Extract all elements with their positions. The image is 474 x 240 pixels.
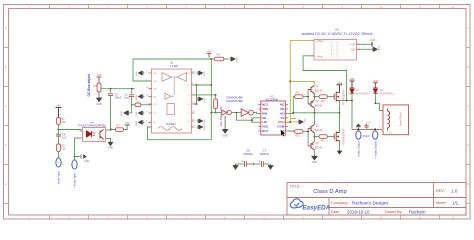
svg-text:Racham: Racham (409, 209, 426, 214)
svg-text:GND: GND (204, 125, 206, 130)
svg-text:CD4009UBE: CD4009UBE (226, 99, 243, 103)
wire opto pin2 to audio input + (75, 138, 81, 157)
svg-text:GND: GND (222, 134, 228, 137)
svg-text:GND: GND (312, 161, 318, 164)
wire D4 to L1 (375, 93, 383, 110)
svg-text:1500uF: 1500uF (260, 152, 270, 156)
svg-text:GND: GND (237, 57, 239, 62)
svg-text:+ Vout: + Vout (316, 39, 324, 43)
wire yellow branch upper cell (290, 81, 314, 84)
svg-text:- VO: - VO (350, 47, 355, 51)
svg-text:D: D (467, 144, 469, 147)
svg-text:D: D (5, 144, 7, 147)
transistor Q6 BD140 (308, 142, 323, 150)
svg-text:BD139: BD139 (315, 90, 323, 93)
node junction input bias (58, 129, 60, 131)
svg-text:TL494: TL494 (170, 64, 178, 68)
svg-text:+12V: +12V (370, 39, 376, 42)
connector pin audio in right (72, 160, 77, 188)
diode D4 MUR460RLG (373, 88, 394, 96)
ground at module output (360, 46, 380, 52)
svg-text:VS: VS (280, 116, 284, 120)
wire module +VIN (yellow rail) (290, 40, 314, 118)
svg-text:GND: GND (204, 97, 206, 102)
gnd flag pin5 (left) (136, 111, 145, 117)
ground bias (96, 97, 102, 107)
trimmer R5 vertical (214, 99, 218, 113)
svg-text:NC2: NC2 (262, 103, 268, 107)
gnd flag right of R4 (229, 57, 239, 63)
svg-text:VDD: VDD (262, 107, 269, 111)
svg-text:10uF: 10uF (124, 97, 130, 100)
U5 pin names (316, 39, 356, 58)
U1 body (152, 69, 192, 133)
svg-text:NC3: NC3 (262, 129, 268, 133)
svg-text:+12V: +12V (304, 118, 306, 124)
svg-text:GND: GND (96, 103, 102, 106)
svg-text:C: C (467, 105, 469, 108)
drain power flag +24V (337, 83, 343, 93)
ground C7 right (268, 164, 273, 169)
svg-text:HIN: HIN (262, 111, 267, 115)
emitter rail cell2 (313, 133, 315, 142)
svg-text:- Audio Input: - Audio Input (57, 171, 61, 186)
opto LED (87, 131, 96, 137)
gnd flag pin14 (right) (197, 71, 207, 77)
base rail cell2 (307, 128, 309, 146)
svg-text:Class D Amp: Class D Amp (313, 189, 347, 195)
svg-text:2IN+: 2IN+ (153, 89, 158, 91)
svg-text:1.0: 1.0 (451, 188, 458, 193)
wire Q6 collector to gnd (313, 150, 315, 155)
svg-text:1/1: 1/1 (452, 200, 459, 205)
svg-text:PC817X4NSZ0F(B): PC817X4NSZ0F(B) (78, 124, 105, 128)
wire opto pin1 (79, 130, 81, 132)
svg-text:+9V: +9V (56, 105, 61, 108)
+12V flag at module output (360, 39, 376, 47)
U1 flip flop box (167, 104, 175, 115)
wire pin9 to trimmer (195, 95, 216, 99)
power flag above D2 (349, 79, 355, 88)
svg-text:+ VO: + VO (349, 42, 355, 46)
gnd flag pin13 (right) (197, 125, 207, 131)
wire audio-in right to gnd (75, 157, 80, 160)
svg-text:+5V: +5V (207, 50, 212, 54)
inverter U2A (211, 110, 231, 115)
wire D2 anode to source rail (340, 93, 353, 129)
svg-text:2019-10-10: 2019-10-10 (347, 209, 370, 214)
U1 comparator (165, 93, 174, 100)
ground C1C2 (left-pointing flag) (121, 111, 132, 117)
svg-text:10k 4W 1A VR: 10k 4W 1A VR (219, 106, 223, 126)
svg-text:OC: OC (187, 85, 191, 87)
U1 right pin stubs (192, 73, 195, 127)
resistor R1 (57, 118, 67, 128)
wire bias tap to C5/C1 (101, 88, 135, 90)
emitter rail cell1 (313, 94, 315, 100)
connector pin audio output - (356, 131, 361, 158)
resistor R11 gate (314, 135, 334, 143)
ground below inverter (222, 116, 228, 138)
diode D2 MUR460RLG (350, 88, 371, 96)
svg-text:100uF: 100uF (115, 97, 123, 100)
VCC net flag right of U3 (288, 118, 307, 124)
svg-text:GND: GND (136, 71, 138, 76)
U1 error amp 2 (177, 73, 187, 82)
U1 inner pin names (153, 73, 191, 124)
node C6C7 (253, 163, 255, 165)
svg-text:BD139: BD139 (315, 129, 323, 132)
gnd flag pin6 (left) (136, 120, 145, 126)
resistor R9 gate (314, 95, 334, 103)
gnd flag pin12 (right) (197, 119, 207, 125)
svg-text:470nF: 470nF (363, 135, 371, 138)
resistor R8 (295, 92, 309, 99)
svg-text:DTC: DTC (153, 104, 158, 106)
wire Q2 collector to mid rail (313, 108, 315, 113)
border tick marks top/bottom (50, 5, 440, 220)
mid rail (phase node) (293, 112, 339, 114)
wire junction to SD LIN (236, 113, 258, 123)
svg-text:+ Audio Output: + Audio Output (373, 141, 377, 159)
svg-text:+ Audio Input: + Audio Input (73, 173, 77, 188)
svg-text:VCC: VCC (186, 73, 191, 75)
svg-text:Drawn By:: Drawn By: (385, 210, 403, 214)
U3 left pin names (262, 103, 269, 133)
svg-text:GND: GND (84, 160, 90, 163)
wire rail down to bottom loop (210, 59, 212, 140)
transistor Q1 BD139 (308, 85, 323, 94)
svg-text:Company:: Company: (331, 201, 348, 205)
capacitor C1 (124, 89, 134, 101)
ground at audio input (79, 154, 86, 158)
power flag bias (97, 73, 102, 82)
U3 body (261, 101, 286, 135)
svg-text:GND: GND (204, 71, 206, 76)
title block frame (287, 183, 466, 216)
gnd flag pin1 (left) (136, 71, 145, 77)
node yellow rail (289, 80, 291, 82)
svg-text:1uF: 1uF (62, 137, 67, 140)
wire Q5 collector to mid rail (313, 113, 315, 125)
svg-text:GND: GND (136, 95, 138, 100)
U1 left pin stubs (149, 73, 152, 127)
svg-text:+5V: +5V (97, 73, 102, 77)
U5 pin stubs (311, 40, 360, 55)
svg-text:1IN+: 1IN+ (153, 73, 158, 75)
svg-text:MUR460RLG: MUR460RLG (380, 92, 395, 95)
power flag VCC input chain (56, 105, 62, 118)
svg-text:+24V: +24V (337, 83, 343, 85)
wire module -VIN loop (303, 56, 347, 101)
svg-text:Isolated DC-DC 9-18VDC To 12VD: Isolated DC-DC 9-18VDC To 12VDC 250mA (302, 32, 374, 36)
node below C1 (131, 104, 133, 106)
svg-text:VCC: VCC (278, 120, 285, 124)
svg-text:GND: GND (378, 46, 380, 51)
svg-text:MUR460RLG: MUR460RLG (355, 92, 370, 95)
gnd flag pin15 (left) (136, 94, 145, 100)
wire bottom loop (147, 127, 211, 140)
connector pin audio output + (373, 131, 378, 159)
svg-text:TITLE:: TITLE: (290, 185, 301, 189)
wire pin8 to pin10 (195, 85, 197, 104)
svg-text:4R7: 4R7 (321, 140, 326, 143)
resistor R4 (211, 54, 228, 61)
svg-text:TL494N: TL494N (165, 122, 175, 126)
power flag +5V top rail (207, 50, 212, 58)
svg-text:VSS: VSS (262, 125, 268, 129)
svg-text:C: C (5, 105, 7, 108)
svg-text:Date:: Date: (331, 210, 340, 214)
wire top loop VCC (133, 59, 211, 81)
wire HO to R8 (288, 97, 295, 114)
node pin8 (196, 84, 198, 86)
mouse cursor arrow (281, 130, 286, 137)
U1 oscillator (158, 127, 182, 131)
power flag at R7 (125, 123, 130, 125)
svg-text:+24V: +24V (372, 79, 378, 83)
svg-text:Racham's Designs: Racham's Designs (352, 200, 389, 205)
ground below Q7 source (337, 150, 341, 154)
wire rail to pin8 (195, 84, 212, 86)
svg-text:GND: GND (136, 111, 138, 116)
svg-text:4R7: 4R7 (321, 100, 326, 103)
capacitor C5 (108, 88, 122, 129)
svg-text:BD140: BD140 (315, 104, 323, 107)
svg-text:- Vout: - Vout (316, 54, 323, 58)
svg-text:GND: GND (108, 147, 114, 150)
svg-text:DC Bias adjust: DC Bias adjust (87, 73, 91, 96)
svg-text:IRFB4019PBF: IRFB4019PBF (343, 128, 346, 145)
transistor Q2 BD140 (308, 100, 323, 108)
svg-text:2IN-: 2IN- (153, 97, 157, 99)
svg-text:LIN: LIN (262, 120, 267, 124)
svg-text:+24V: +24V (349, 79, 355, 81)
ground C6 left (233, 164, 238, 169)
svg-text:R10: R10 (296, 135, 301, 138)
svg-text:Toroid 22uH: Toroid 22uH (399, 112, 403, 126)
wire yellow branch lower cell (290, 118, 296, 120)
resistor R10 (295, 130, 309, 138)
U3 right pin names (277, 103, 285, 133)
svg-text:Sheet:: Sheet: (436, 201, 447, 205)
U3 pin stubs (258, 105, 288, 131)
output node wire (352, 128, 382, 130)
svg-text:COM: COM (277, 125, 285, 129)
connector pin audio in left (56, 157, 61, 186)
border tick marks left/right (4, 48, 471, 204)
svg-text:U5: U5 (335, 28, 339, 32)
transistor Q5 BD139 (308, 124, 323, 133)
ground below Q6 (312, 155, 318, 164)
mosfet Q7 IRFB4019PBF (334, 113, 345, 150)
svg-text:IRFB4019PBF: IRFB4019PBF (343, 88, 346, 105)
resistor R2 (57, 139, 67, 157)
svg-text:1IN-: 1IN- (153, 81, 157, 83)
svg-text:HO: HO (280, 111, 285, 115)
opto pins (80, 130, 108, 139)
gnd flag pin11 (right) (197, 97, 207, 103)
resistor R7 (115, 125, 127, 132)
EasyEDA logo (290, 199, 330, 211)
svg-text:REV:: REV: (436, 189, 445, 193)
inductor L1 (383, 105, 409, 135)
capacitor C11 470nF (363, 123, 372, 139)
svg-text:+5V: +5V (125, 123, 130, 125)
trimmer R3 (94, 82, 101, 97)
mosfet Q3 IRFB4019PBF (334, 88, 345, 112)
svg-text:EasyEDA: EasyEDA (303, 204, 331, 211)
node top-right rail (210, 58, 212, 60)
wire LO to R10 (288, 130, 295, 133)
wire inverter2 out to HIN (253, 112, 258, 115)
base rail cell1 (307, 90, 309, 105)
capacitor C7 (254, 161, 270, 167)
opto output node (110, 129, 112, 131)
opto phototransistor (100, 130, 104, 140)
svg-text:- Audio Output: - Audio Output (357, 141, 361, 158)
svg-text:1500uF: 1500uF (243, 152, 253, 156)
capacitor C4 (56, 133, 67, 140)
inverter U2B (231, 109, 253, 116)
opto pin4 to gnd (108, 139, 111, 142)
U5 body (314, 39, 357, 60)
capacitor C6 (236, 161, 253, 167)
capacitor C3 to pin4 (132, 101, 152, 106)
wire junction to optocoupler (59, 127, 82, 133)
U1 error amp 1 (162, 73, 172, 82)
svg-text:GND: GND (136, 120, 138, 125)
node C1 top (131, 88, 133, 90)
svg-text:GND: GND (204, 119, 206, 124)
node R5 bottom (215, 112, 217, 114)
opto U4 body (83, 128, 106, 142)
svg-text:BD140: BD140 (315, 146, 323, 149)
svg-text:GND: GND (121, 111, 123, 116)
+12V flag above D4 (372, 79, 378, 88)
